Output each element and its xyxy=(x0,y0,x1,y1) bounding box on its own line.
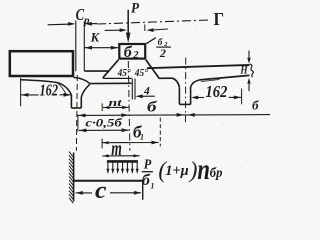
svg-text:162: 162 xyxy=(205,82,227,101)
svg-text:45°: 45° xyxy=(134,68,149,79)
svg-text:n: n xyxy=(197,153,210,186)
svg-text:1: 1 xyxy=(140,133,144,142)
svg-text:K: K xyxy=(90,31,101,45)
svg-text:45°: 45° xyxy=(117,68,132,79)
svg-text:162: 162 xyxy=(40,80,59,99)
svg-text:m: m xyxy=(111,138,122,160)
svg-text:p: p xyxy=(83,15,90,27)
svg-text:c: c xyxy=(95,178,107,204)
svg-text:2: 2 xyxy=(159,46,166,60)
svg-text:2: 2 xyxy=(132,50,139,61)
svg-text:P: P xyxy=(144,158,152,173)
svg-text:H: H xyxy=(240,65,249,77)
svg-text:): ) xyxy=(188,157,198,182)
svg-text:Г: Г xyxy=(214,9,225,29)
svg-text:P: P xyxy=(131,0,140,16)
svg-text:c·0,5б: c·0,5б xyxy=(85,118,123,130)
svg-text:1: 1 xyxy=(150,182,154,191)
svg-text:4: 4 xyxy=(143,85,150,97)
svg-text:бр: бр xyxy=(210,165,223,180)
svg-text:б: б xyxy=(124,44,133,61)
svg-text:1+μ: 1+μ xyxy=(165,163,189,179)
svg-text:б: б xyxy=(252,98,259,113)
svg-text:б: б xyxy=(147,99,157,115)
